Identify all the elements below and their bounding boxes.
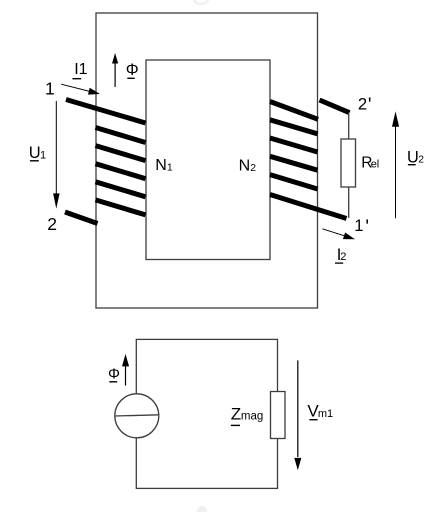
svg-text:2: 2 (250, 162, 256, 174)
secondary winding N2 turn 3 (270, 138, 318, 152)
transformer core outer outline (96, 13, 318, 308)
svg-text:1: 1 (354, 216, 363, 235)
terminal label 1' (354, 216, 369, 238)
svg-text:el: el (371, 158, 380, 170)
svg-text:1: 1 (167, 161, 173, 173)
label N1 (155, 157, 173, 174)
svg-text:Φ: Φ (126, 61, 139, 79)
svg-text:N: N (239, 158, 251, 175)
label phi (bottom) (108, 366, 120, 383)
secondary winding N2 turn 4 (270, 156, 318, 170)
faint cropped glyph artifact (top edge) (194, 0, 208, 4)
label U2 (407, 148, 424, 166)
primary winding N1 turn 5 (96, 182, 146, 197)
label Vm1 (307, 402, 333, 421)
label phi (top) (126, 61, 139, 79)
label Zmag (231, 404, 263, 425)
secondary winding N2 turn 5 (270, 175, 318, 189)
terminal label 2' (358, 95, 372, 117)
secondary winding N2 lead to terminal 2' (320, 100, 350, 113)
svg-text:1: 1 (45, 79, 55, 99)
resistor Rel (341, 139, 356, 187)
svg-text:I1: I1 (74, 61, 87, 78)
svg-text:mag: mag (241, 410, 263, 422)
flux arrow (bottom, phi) (122, 354, 129, 386)
svg-text:U: U (29, 144, 41, 162)
current arrow I1 (61, 84, 100, 94)
svg-text:U: U (407, 148, 419, 166)
current arrow I2 (322, 229, 355, 240)
impedance Zmag (271, 392, 286, 439)
svg-text:N: N (155, 157, 167, 174)
svg-text:Φ: Φ (108, 366, 120, 383)
label Rel (361, 154, 379, 171)
secondary winding N2 turn 2 (270, 120, 318, 134)
svg-text:2: 2 (340, 251, 346, 263)
svg-text:': ' (365, 217, 369, 238)
faint cropped glyph artifact (bottom edge) (197, 506, 207, 512)
primary winding N1 lead to terminal 2 (65, 212, 98, 224)
svg-text:2: 2 (418, 154, 424, 165)
label I1 (72, 61, 87, 79)
primary winding N1 lead from terminal 1 (66, 100, 146, 124)
voltage arrow U1 (53, 101, 60, 209)
svg-text:2: 2 (358, 95, 367, 114)
primary winding N1 turn 4 (96, 164, 146, 179)
primary winding N1 turn 2 (96, 128, 146, 143)
secondary winding N2 lead to terminal 1' (270, 195, 347, 219)
svg-text:Z: Z (231, 404, 241, 423)
svg-text:': ' (368, 95, 372, 116)
wire from resistor Rel to terminal 1' (348, 187, 350, 218)
primary winding N1 turn 3 (96, 146, 146, 161)
svg-text:m1: m1 (318, 408, 333, 420)
secondary winding N2 turn 1 (270, 102, 318, 120)
flux arrow (top, phi) (112, 53, 118, 87)
svg-text:2: 2 (47, 214, 57, 234)
voltage arrow U2 (392, 111, 399, 218)
label I2 (335, 246, 346, 264)
label U1 (29, 144, 46, 162)
wire from terminal 2' to resistor Rel (348, 113, 350, 139)
voltage arrow Vm1 (294, 360, 301, 470)
primary winding N1 turn 6 (96, 200, 146, 215)
transformer core window (inner rectangle) (146, 60, 270, 260)
label N2 (239, 158, 257, 175)
flux source (MMF source) (115, 394, 159, 438)
magnetic equivalent circuit loop (136, 339, 277, 488)
svg-text:1: 1 (40, 149, 46, 161)
